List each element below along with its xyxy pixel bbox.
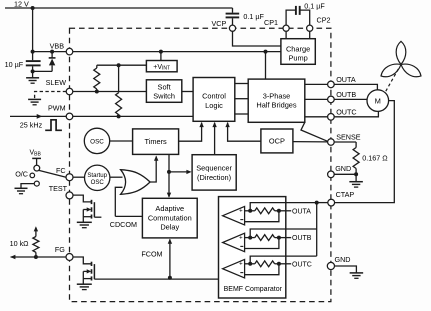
node VINT tap — [159, 50, 163, 54]
wire CTAP to comparators — [317, 202, 328, 204]
wire OSC to timers — [110, 140, 133, 142]
svg-text:Half Bridges: Half Bridges — [256, 100, 297, 109]
svg-text:Startup: Startup — [87, 172, 107, 179]
transistor Q1 (TEST) — [73, 195, 92, 202]
oscillator startup OSC — [85, 165, 110, 190]
wire VBB rail — [33, 51, 67, 53]
pin GND lower — [327, 262, 334, 269]
wire bridges to OUTC — [305, 116, 328, 118]
pin OUTB — [328, 96, 335, 103]
svg-text:3-Phase: 3-Phase — [263, 91, 291, 100]
resistor R4 0.167ohm — [355, 142, 357, 148]
svg-text:12 V: 12 V — [14, 0, 29, 8]
svg-text:Commutation: Commutation — [148, 213, 192, 222]
wire PWM to control logic — [73, 115, 193, 117]
svg-text:Pump: Pump — [288, 54, 307, 63]
svg-text:M: M — [375, 97, 381, 106]
switch contact lower — [34, 181, 39, 186]
or-gate U2 — [121, 170, 151, 195]
svg-text:(Direction): (Direction) — [197, 173, 231, 182]
wire FG output — [11, 256, 66, 258]
svg-text:10 kΩ: 10 kΩ — [10, 239, 30, 248]
wire bridges to OUTA — [305, 83, 328, 85]
oscillator OSC — [84, 128, 109, 153]
pin VBB — [66, 48, 73, 55]
wire motor to CTAP — [335, 101, 395, 203]
wire OR gate lower input — [115, 187, 122, 216]
resistor R1 pull-up — [96, 65, 98, 68]
svg-text:OUTC: OUTC — [336, 107, 356, 116]
svg-text:PWM: PWM — [48, 104, 66, 113]
wire bridges to OUTB — [305, 98, 328, 100]
block timers — [133, 129, 179, 155]
transistor Q2 (FG) — [73, 257, 92, 264]
svg-text:CDCOM: CDCOM — [110, 220, 137, 229]
node R3 junction — [34, 255, 38, 259]
pin FG — [66, 254, 73, 261]
svg-text:CP2: CP2 — [317, 15, 331, 24]
IC boundary dashed box — [70, 28, 331, 301]
wire junction to delay block — [168, 172, 170, 197]
wire timers to control logic — [179, 123, 202, 141]
pin GND upper — [328, 171, 335, 178]
svg-text:Charge: Charge — [286, 45, 310, 54]
pin CTAP — [328, 199, 335, 206]
wire soft switch to control logic — [182, 91, 193, 93]
fan shaft dashed — [386, 68, 399, 91]
svg-text:10 µF: 10 µF — [5, 60, 24, 69]
pulse waveform symbol — [45, 120, 62, 131]
svg-text:BEMF Comparator: BEMF Comparator — [224, 286, 283, 293]
node half-bridge supply tap — [264, 50, 268, 54]
svg-text:Timers: Timers — [144, 137, 167, 146]
fan propeller — [379, 41, 424, 80]
svg-text:GND: GND — [335, 255, 351, 264]
pin OUTA — [328, 81, 335, 88]
wire GND lower to ground — [335, 266, 357, 273]
svg-text:TEST: TEST — [49, 184, 68, 193]
node FCOM junction — [168, 276, 172, 280]
svg-text:Control: Control — [202, 92, 226, 101]
wire CP1 to charge pump — [285, 31, 287, 38]
svg-text:Switch: Switch — [153, 91, 175, 100]
wire control-bridge bus 3 — [235, 113, 248, 115]
svg-text:OSC: OSC — [90, 138, 104, 145]
node Rs ground junction — [354, 172, 358, 176]
pin TEST — [66, 192, 73, 199]
svg-text:+: + — [239, 235, 243, 241]
pin PWM — [66, 113, 73, 120]
node CTAP junction — [315, 201, 319, 205]
node R2 top junction — [117, 63, 121, 67]
svg-text:+VINT: +VINT — [153, 64, 170, 72]
svg-text:OSC: OSC — [91, 179, 105, 186]
pin OUTC — [328, 114, 335, 121]
svg-text:Logic: Logic — [205, 101, 223, 110]
pin SLEW — [66, 88, 73, 95]
pin CP2 — [307, 25, 313, 31]
svg-text:O/C: O/C — [15, 169, 28, 178]
svg-text:VBB: VBB — [30, 150, 42, 158]
ground GND lower — [350, 272, 364, 274]
node zener top junction — [50, 50, 54, 54]
svg-text:OUTA: OUTA — [292, 208, 311, 215]
wire SLEW to soft switch — [73, 91, 147, 93]
svg-text:0.1 µF: 0.1 µF — [243, 12, 264, 21]
wire VBB rail to charge pump — [73, 51, 281, 53]
comparator U5 + net OUTC — [223, 259, 245, 278]
wire zener anode to C1 node — [33, 70, 53, 72]
svg-text:CTAP: CTAP — [336, 190, 355, 199]
svg-text:FC: FC — [56, 166, 66, 175]
capacitor C2 0.1uF — [226, 13, 240, 15]
svg-text:Sequencer: Sequencer — [196, 164, 232, 173]
wire FCOM arrow to delay — [169, 239, 171, 277]
wire SENSE to Rs — [334, 141, 356, 143]
svg-text:SLEW: SLEW — [46, 78, 67, 87]
wire OUTA to motor — [334, 84, 377, 89]
wire PWM input — [10, 115, 66, 117]
block soft switch — [146, 80, 181, 103]
svg-text:OUTA: OUTA — [336, 75, 356, 84]
wire CP2 to charge pump — [309, 31, 311, 38]
wire 12V to C2 — [232, 8, 234, 13]
pin VCP — [229, 25, 235, 31]
node C1 bottom junction — [31, 69, 35, 73]
wire sequencer to control logic — [214, 123, 216, 155]
block BEMF comparator — [219, 197, 286, 298]
svg-text:FCOM: FCOM — [141, 250, 162, 259]
block control logic — [193, 78, 235, 122]
svg-text:CP1: CP1 — [264, 18, 278, 27]
node R2 bottom junction — [117, 114, 121, 118]
comparator U4 + net OUTB — [223, 233, 245, 252]
svg-text:VCP: VCP — [212, 19, 227, 28]
wire junction to sequencer — [169, 171, 187, 173]
svg-text:GND: GND — [335, 164, 351, 173]
svg-text:OCP: OCP — [269, 137, 285, 146]
capacitor C1 10uF — [32, 52, 34, 61]
wire FC to startup osc — [73, 176, 85, 178]
svg-text:Delay: Delay — [160, 222, 179, 231]
svg-text:0.1 µF: 0.1 µF — [304, 1, 325, 10]
svg-text:Adaptive: Adaptive — [155, 204, 184, 213]
switch lever O/C — [39, 170, 66, 177]
svg-text:OUTB: OUTB — [292, 235, 312, 242]
resistor R2 pull-down — [118, 65, 120, 93]
svg-text:FG: FG — [55, 245, 65, 254]
block adaptive commutation delay — [142, 198, 197, 238]
switch contact upper — [34, 165, 40, 171]
zener diode D1 — [51, 52, 53, 58]
ground C1 — [26, 77, 39, 79]
wire OCP to control logic — [228, 123, 261, 141]
wire ground stem upper — [355, 174, 357, 181]
resistor R3 10k pull-up — [35, 228, 37, 237]
wire supply drop to half bridges — [265, 52, 267, 80]
svg-text:OUTB: OUTB — [336, 90, 356, 99]
wire CDCOM — [115, 215, 142, 217]
svg-text:SENSE: SENSE — [336, 132, 361, 141]
block +VINT regulator — [146, 61, 177, 72]
ground O/C switch — [15, 187, 28, 189]
ground SLEW — [28, 98, 41, 100]
wire bridges to SENSE diagonal — [301, 122, 328, 141]
pin SENSE — [328, 139, 335, 146]
svg-text:Soft: Soft — [158, 82, 171, 91]
wire OR output to timers — [150, 157, 156, 183]
node commutation junction — [167, 170, 171, 174]
wire VINT drop — [160, 52, 162, 61]
pin FC — [66, 174, 73, 181]
block 3-phase half bridges — [248, 79, 305, 122]
wire lower contact to ground — [21, 184, 34, 189]
wire timers output down — [168, 154, 170, 172]
block sequencer — [192, 155, 236, 190]
node VBB rail left junction — [31, 50, 35, 54]
block OCP — [261, 129, 293, 153]
wire control-bridge bus 2 — [235, 98, 248, 100]
wire C1 to ground — [32, 71, 34, 77]
wire VINT node rail — [97, 64, 147, 66]
svg-text:+: + — [239, 262, 243, 268]
wire startup osc to OR gate — [110, 176, 123, 178]
wire GND to ground — [334, 173, 356, 175]
svg-text:OUTC: OUTC — [292, 261, 312, 268]
block charge pump — [281, 39, 315, 65]
wire control-bridge bus 1 — [235, 83, 248, 85]
svg-text:25 kHz: 25 kHz — [20, 121, 43, 130]
ground GND upper — [349, 181, 363, 183]
wire VCP to charge pump — [233, 31, 281, 46]
svg-text:VBB: VBB — [50, 41, 65, 50]
wire 12V drop to VBB rail — [32, 8, 34, 52]
svg-text:0.167 Ω: 0.167 Ω — [362, 153, 388, 162]
wire OUTC to motor — [334, 112, 378, 117]
switch contact middle — [30, 173, 35, 178]
node 12V/VBB junction — [31, 6, 35, 10]
capacitor C3 0.1uF — [286, 10, 296, 25]
comparator U3 + net OUTA — [223, 206, 245, 225]
pin CP1 — [283, 25, 289, 31]
svg-text:+: + — [239, 209, 243, 215]
wire 12V rail — [5, 7, 233, 9]
wire OCP to SENSE — [293, 141, 328, 143]
wire SLEW dashed to ground — [35, 92, 67, 100]
wire OUTB to motor — [334, 98, 367, 100]
wire CTAP reference column — [316, 203, 318, 257]
wire VBB stub — [32, 157, 41, 159]
node R1 bottom junction — [95, 90, 99, 94]
motor M1 — [367, 90, 389, 112]
